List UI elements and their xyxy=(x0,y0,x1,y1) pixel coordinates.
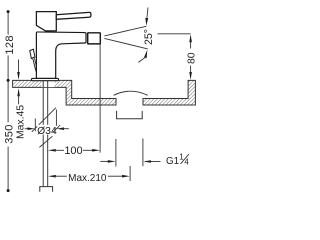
svg-text:25°: 25° xyxy=(143,29,155,45)
dimension 80 xyxy=(158,34,192,80)
hose reference diagonal xyxy=(39,136,52,147)
svg-text:100: 100 xyxy=(64,145,82,157)
svg-text:G1: G1 xyxy=(166,156,179,167)
svg-text:1: 1 xyxy=(179,153,183,162)
handle lever arm xyxy=(56,12,91,19)
ceramic deck section left with step (hatched) xyxy=(13,80,116,105)
svg-text:128: 128 xyxy=(4,35,16,55)
svg-text:Max.210: Max.210 xyxy=(68,173,107,184)
faucet base plate xyxy=(32,78,59,80)
pop-up waste lever xyxy=(30,49,37,71)
pop-up drain dome lid xyxy=(114,91,148,95)
label O34 xyxy=(37,125,57,137)
svg-text:350: 350 xyxy=(3,124,15,144)
faucet mounting hole gap in deck xyxy=(41,81,54,87)
label G1 1/4 xyxy=(166,153,189,167)
aerator xyxy=(88,33,101,44)
drain body below deck xyxy=(117,111,143,119)
dimension G1 1/4 leaders xyxy=(100,139,160,167)
svg-text:80: 80 xyxy=(187,52,198,64)
spout joint line xyxy=(85,33,87,43)
ceramic deck section right with rear rim (hatched) xyxy=(143,80,195,105)
svg-text:4: 4 xyxy=(184,158,189,167)
dimension 25 degrees xyxy=(104,8,148,63)
dimension Max.210 xyxy=(48,166,130,181)
supply shank lines xyxy=(43,79,48,187)
svg-text:Max.45: Max.45 xyxy=(15,105,26,139)
dimension Max.45 arrows xyxy=(17,60,20,105)
dimension line 128/350 (left, dot terminators) xyxy=(7,10,10,192)
hose end fitting xyxy=(40,187,53,192)
handle knob xyxy=(36,12,56,31)
faucet body and spout xyxy=(36,32,86,78)
dimension O34 xyxy=(25,108,56,132)
dimension 100 xyxy=(48,149,100,152)
stream extension line from aerator xyxy=(99,44,101,152)
